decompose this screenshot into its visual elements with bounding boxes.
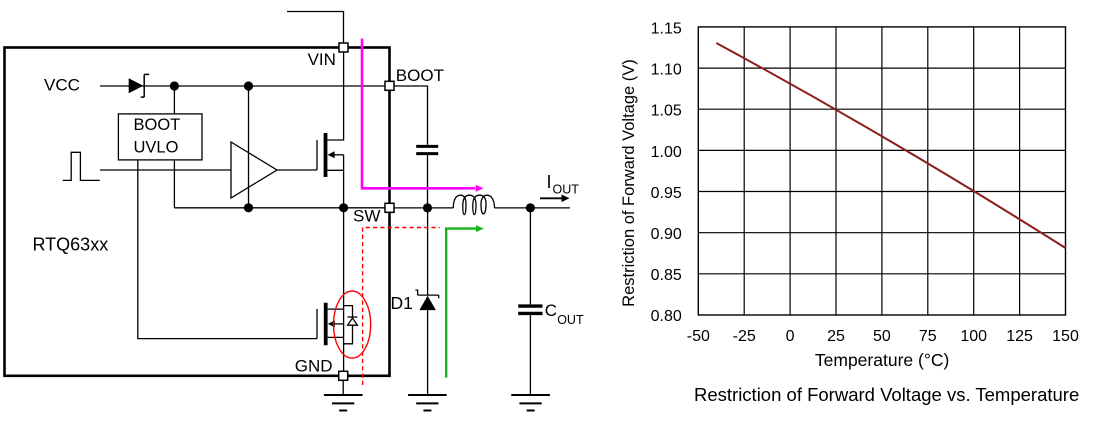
svg-text:50: 50 [873, 328, 891, 345]
svg-text:D1: D1 [391, 293, 413, 313]
svg-text:BOOT: BOOT [396, 66, 444, 85]
svg-text:150: 150 [1052, 328, 1079, 345]
svg-text:Restriction of Forward Voltage: Restriction of Forward Voltage vs. Tempe… [694, 384, 1079, 405]
svg-text:25: 25 [827, 328, 845, 345]
svg-text:BOOT: BOOT [134, 116, 181, 134]
svg-text:1.10: 1.10 [651, 62, 682, 79]
svg-text:VCC: VCC [44, 75, 80, 94]
svg-text:75: 75 [919, 328, 937, 345]
svg-text:-50: -50 [687, 328, 710, 345]
svg-text:C: C [545, 301, 557, 320]
svg-text:0.85: 0.85 [651, 267, 682, 284]
svg-text:GND: GND [295, 356, 333, 375]
svg-text:SW: SW [353, 206, 380, 225]
svg-text:0.80: 0.80 [651, 308, 682, 325]
svg-text:1.00: 1.00 [651, 144, 682, 161]
svg-text:VIN: VIN [308, 50, 336, 69]
svg-text:OUT: OUT [557, 313, 584, 327]
svg-text:-25: -25 [733, 328, 756, 345]
svg-text:100: 100 [960, 328, 987, 345]
svg-text:125: 125 [1006, 328, 1033, 345]
svg-text:OUT: OUT [553, 183, 580, 197]
svg-text:Temperature (°C): Temperature (°C) [815, 350, 949, 370]
svg-text:I: I [547, 172, 552, 192]
svg-text:Restriction of Forward Voltage: Restriction of Forward Voltage (V) [620, 59, 638, 307]
svg-text:1.15: 1.15 [651, 20, 682, 37]
svg-text:0.90: 0.90 [651, 226, 682, 243]
svg-text:RTQ63xx: RTQ63xx [33, 234, 109, 254]
svg-text:1.05: 1.05 [651, 103, 682, 120]
svg-text:UVLO: UVLO [134, 138, 179, 156]
svg-text:0.95: 0.95 [651, 185, 682, 202]
svg-text:0: 0 [786, 328, 795, 345]
